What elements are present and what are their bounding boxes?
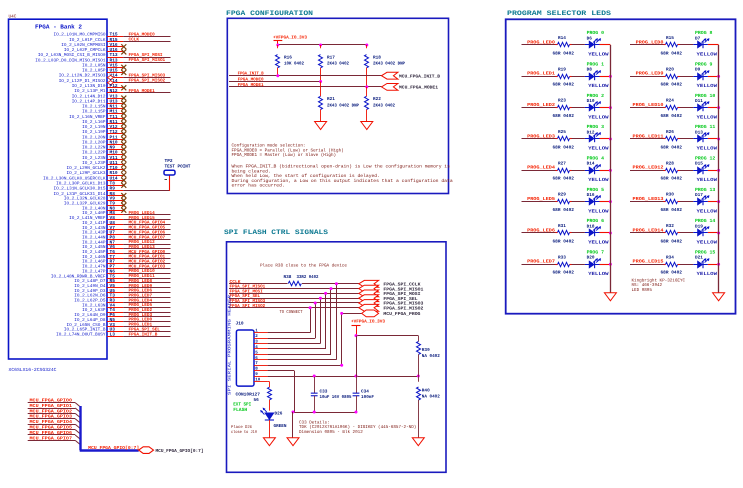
svg-text:PROG 14: PROG 14 bbox=[695, 218, 715, 224]
svg-text:D26: D26 bbox=[275, 412, 283, 417]
svg-text:PROG 10: PROG 10 bbox=[695, 93, 715, 99]
svg-text:PROG 0: PROG 0 bbox=[587, 30, 605, 36]
wire connector pin 3 to signal bbox=[268, 297, 322, 344]
svg-text:MCU_FPGA_GPIO1: MCU_FPGA_GPIO1 bbox=[30, 403, 73, 409]
wire between R24 and D11 bbox=[680, 107, 694, 109]
pin R9 IO_2_L31N_GCLK30_D15 bbox=[54, 186, 124, 192]
svg-text:100nF: 100nF bbox=[361, 395, 374, 400]
svg-text:D17: D17 bbox=[695, 193, 703, 198]
port FPGA_SPI_MOSI bbox=[359, 290, 421, 297]
svg-text:D7: D7 bbox=[695, 36, 701, 41]
svg-text:R29: R29 bbox=[558, 193, 566, 198]
wire net MCU_FPGA_GPIO0 bbox=[28, 398, 81, 408]
LED D21 yellow bbox=[693, 249, 717, 277]
svg-text:68R 0402: 68R 0402 bbox=[553, 239, 575, 244]
svg-text:+VFPGA_IO_3V3: +VFPGA_IO_3V3 bbox=[351, 320, 385, 325]
svg-text:Dimension 0805 - Blk 2012: Dimension 0805 - Blk 2012 bbox=[299, 429, 363, 435]
pin T3 IO_2_L62N_D6 bbox=[74, 293, 123, 299]
svg-text:C34: C34 bbox=[361, 389, 369, 394]
svg-text:PROG_LED2: PROG_LED2 bbox=[527, 102, 555, 108]
svg-text:FLASH: FLASH bbox=[233, 407, 247, 413]
wire net PROG_LED4 bbox=[123, 298, 170, 303]
note Kingbright LED part bbox=[632, 278, 686, 293]
wire D14 cathode to bus bbox=[600, 169, 612, 172]
wire between R19 and D8 bbox=[572, 76, 585, 78]
wire connector pin 9 to 3V3 pull rail bbox=[268, 375, 420, 378]
capacitor C33 10uF 16V 0805 bbox=[311, 377, 352, 412]
connector pin 3 bbox=[254, 340, 268, 345]
test point TP2 pad bbox=[164, 158, 191, 179]
note place R38 close to the FPGA device bbox=[260, 263, 347, 269]
svg-text:10: 10 bbox=[255, 377, 261, 382]
wire to test point TP2 bbox=[123, 175, 169, 191]
wire net PROG_LED5 bbox=[123, 303, 170, 308]
wire connector pin 1 to signal bbox=[268, 306, 312, 332]
resistor R33 68R 0402 bbox=[553, 255, 575, 275]
svg-text:FPGA CONFIGURATION: FPGA CONFIGURATION bbox=[226, 10, 313, 18]
svg-text:MCU_FPGA_INIT_B: MCU_FPGA_INIT_B bbox=[399, 75, 440, 80]
svg-text:N12: N12 bbox=[110, 88, 118, 94]
pin T5 IO_2_L48N_RDWR_B_VREF bbox=[51, 274, 123, 279]
wire D18 cathode to bus bbox=[600, 231, 612, 234]
svg-text:R13: R13 bbox=[110, 57, 118, 63]
svg-text:TEST POINT: TEST POINT bbox=[165, 164, 191, 170]
wire between R27 and D14 bbox=[572, 170, 585, 172]
wire net PROG_LED7 bbox=[123, 293, 170, 298]
note FPGA_INIT_B description bbox=[232, 164, 454, 189]
resistor R14 68R 0402 bbox=[553, 36, 575, 56]
capacitor C34 100nF bbox=[353, 377, 375, 412]
wire D13 cathode to bus bbox=[708, 137, 720, 140]
wire D12 cathode to bus bbox=[600, 137, 612, 140]
svg-text:MCU_FPGA_PROG: MCU_FPGA_PROG bbox=[383, 312, 420, 317]
resistor R40 NA 0402 bbox=[417, 377, 441, 438]
no-connect X on pin V12 bbox=[121, 126, 126, 131]
svg-text:SPI SERIAL PROGRAMMING HEADER: SPI SERIAL PROGRAMMING HEADER bbox=[227, 294, 232, 395]
pin T15 IO_2_L01N_M0_CMPMISO bbox=[54, 33, 124, 38]
pin U16 IO_2_L02P_CMPCLK bbox=[64, 47, 123, 53]
connector pin 6 bbox=[254, 356, 268, 361]
pin V11 IO_2_L23N bbox=[82, 156, 123, 161]
pin V8 IO_2_L41N_VREF bbox=[69, 215, 123, 221]
wire between R20 and D9 bbox=[680, 76, 694, 78]
svg-text:MCU_FPGA_GPIO3: MCU_FPGA_GPIO3 bbox=[30, 414, 73, 420]
svg-text:YELLOW: YELLOW bbox=[697, 146, 718, 152]
port FPGA_SPI_CCLK bbox=[359, 280, 421, 287]
wire net PROG_LED2 bbox=[123, 308, 170, 313]
svg-text:10uF 16V 0805: 10uF 16V 0805 bbox=[320, 395, 352, 400]
wire between R33 and D20 bbox=[572, 264, 585, 266]
pin T10 IO_2_L29N_GCLK2 bbox=[67, 165, 124, 171]
wire net PROG_LED14 bbox=[123, 211, 170, 216]
wire net PROG_LED14 row bbox=[630, 227, 680, 233]
pin V5 IO_2_L49N_D4 bbox=[74, 284, 123, 289]
svg-text:PROG 3: PROG 3 bbox=[587, 124, 605, 130]
wire connector pin 6 to signal bbox=[268, 282, 338, 360]
svg-text:YELLOW: YELLOW bbox=[697, 208, 718, 214]
wire between R26 and D13 bbox=[680, 138, 694, 140]
wire D19 cathode to bus bbox=[708, 231, 720, 234]
svg-text:R23: R23 bbox=[558, 99, 566, 104]
no-connect X on pin U11 bbox=[121, 162, 126, 167]
svg-text:D10: D10 bbox=[587, 99, 595, 104]
svg-text:PROG_LED15: PROG_LED15 bbox=[633, 259, 664, 265]
pin R3 IO_2_L62P_D5 bbox=[74, 298, 123, 304]
port FPGA_SPI_MISO1 bbox=[359, 285, 424, 292]
pin U13 IO_2_L14P_D11 bbox=[72, 98, 124, 104]
pin V7 IO_2_L43N bbox=[82, 226, 123, 231]
no-connect X on pin N10 bbox=[121, 142, 126, 147]
LED D19 yellow bbox=[693, 218, 717, 246]
svg-text:56: 56 bbox=[254, 398, 260, 403]
wire net FPGA_SPI_MISO1 bbox=[229, 285, 362, 290]
pin T7 IO_2_L46N bbox=[82, 255, 123, 260]
svg-text:R24: R24 bbox=[666, 99, 674, 104]
note TO CONNECT bbox=[280, 310, 303, 315]
pin R5 IO_2_L48P_D7 bbox=[74, 279, 123, 284]
svg-text:FPGA_MODE0: FPGA_MODE0 bbox=[238, 77, 264, 82]
svg-text:R25: R25 bbox=[558, 130, 566, 135]
svg-text:33R2 0402: 33R2 0402 bbox=[297, 275, 319, 280]
wire connector pin 7 to signal bbox=[268, 312, 344, 366]
wire net MCU_FPGA_GPIO2 bbox=[123, 260, 170, 265]
wire D17 cathode to bus bbox=[708, 200, 720, 203]
no-connect X on pin V13 bbox=[121, 96, 126, 101]
label CON10R127 bbox=[236, 393, 261, 403]
svg-text:V16: V16 bbox=[110, 42, 118, 48]
wire net FPGA_MODE1 bbox=[229, 83, 382, 89]
svg-text:68R 0402: 68R 0402 bbox=[661, 83, 683, 88]
svg-text:68R 0402: 68R 0402 bbox=[553, 177, 575, 182]
wire net PROG_LED6 bbox=[123, 289, 170, 294]
wire net MCU_FPGA_GPIO2 bbox=[28, 408, 81, 418]
wire net FPGA_SPI_MOSI bbox=[123, 53, 170, 58]
svg-text:C33: C33 bbox=[320, 389, 328, 394]
svg-text:N10: N10 bbox=[110, 139, 118, 145]
wire net MCU_FPGA_GPIO0 bbox=[123, 250, 170, 255]
LED D10 yellow bbox=[585, 93, 609, 121]
svg-text:PROG_LED10: PROG_LED10 bbox=[633, 102, 664, 108]
resistor R17 2K43 0402 bbox=[319, 45, 350, 82]
wire net MCU_FPGA_GPIO4 bbox=[123, 221, 170, 226]
pin M11 IO_2_L15P bbox=[82, 110, 123, 115]
svg-text:2K43 0402 DNP: 2K43 0402 DNP bbox=[373, 62, 405, 67]
no-connect X on pin U13 bbox=[121, 101, 126, 106]
pin M8 IO_2_L40P bbox=[82, 210, 123, 216]
LED D9 yellow bbox=[693, 61, 717, 89]
pin R10 IO_2_L29P_GCLK3 bbox=[67, 170, 124, 176]
section title FPGA CONFIGURATION bbox=[226, 10, 313, 18]
junction dot pin7 column bbox=[340, 364, 343, 367]
wire 3V3 rail to R39 bbox=[355, 334, 419, 337]
pin N7 IO_2_L44P bbox=[82, 240, 123, 245]
wire between R34 and D21 bbox=[680, 264, 694, 266]
wire net PROG_LED2 row bbox=[522, 102, 572, 108]
wire net PROG_LED8 bbox=[123, 279, 170, 284]
svg-text:FPGA_MODE1: FPGA_MODE1 bbox=[238, 83, 264, 88]
wire net MCU_FPGA_GPIO1 bbox=[28, 403, 81, 413]
connector pin 10 bbox=[254, 377, 268, 382]
wire net PROG_LED10 row bbox=[630, 102, 680, 108]
svg-text:R19: R19 bbox=[558, 67, 566, 72]
wire net PROG_LED5 row bbox=[522, 196, 572, 202]
port MCU_FPGA_PROG bbox=[342, 310, 421, 317]
pin U5 IO_2_L49P_D3 bbox=[74, 289, 123, 294]
svg-text:68R 0402: 68R 0402 bbox=[553, 271, 575, 276]
wire net PROG_LED15 bbox=[123, 216, 170, 221]
svg-text:PROG 7: PROG 7 bbox=[587, 249, 605, 255]
svg-text:FPGA_INIT_B: FPGA_INIT_B bbox=[129, 332, 158, 337]
svg-text:R30: R30 bbox=[666, 193, 674, 198]
wire D9 cathode to bus bbox=[708, 75, 720, 78]
resistor R34 68R 0402 bbox=[661, 255, 683, 275]
no-connect X on pin T8 bbox=[121, 183, 126, 188]
wire D8 cathode to bus bbox=[600, 75, 612, 78]
svg-text:YELLOW: YELLOW bbox=[588, 208, 609, 214]
resistor R18 2K43 0402 DNP bbox=[365, 45, 406, 87]
wire net MCU_FPGA_GPIO7 bbox=[123, 235, 170, 240]
junction dots on 3V3 rail bbox=[276, 44, 368, 47]
svg-text:PROG 4: PROG 4 bbox=[587, 155, 605, 161]
resistor R22 2K43 0402 bbox=[365, 87, 396, 122]
svg-text:R16: R16 bbox=[284, 55, 292, 60]
svg-text:GREEN: GREEN bbox=[274, 424, 287, 429]
svg-text:R14: R14 bbox=[558, 36, 566, 41]
svg-text:R34: R34 bbox=[666, 255, 674, 260]
svg-text:68R 0402: 68R 0402 bbox=[661, 51, 683, 56]
pin P6 IO_2_L64N_D9 bbox=[74, 312, 123, 318]
no-connect X on pin N9 bbox=[121, 147, 126, 152]
wire power rail 3V3 bbox=[278, 44, 367, 46]
no-connect X on pin M10 bbox=[121, 152, 126, 157]
resistor R27 68R 0402 bbox=[553, 161, 575, 181]
pin V6 IO_2_L45N bbox=[82, 244, 123, 250]
svg-text:R27: R27 bbox=[558, 161, 566, 166]
no-connect X on pin V16 bbox=[121, 44, 126, 49]
wire net PROG_LED4 row bbox=[522, 165, 572, 171]
pin V15 IO_2_L05N bbox=[82, 63, 123, 68]
svg-text:D9: D9 bbox=[695, 68, 701, 73]
LED D6 yellow bbox=[585, 30, 609, 58]
ground left LED bus bbox=[604, 293, 616, 301]
LED D14 yellow bbox=[585, 155, 609, 183]
resistor R15 68R 0402 bbox=[661, 36, 683, 56]
resistor R39 NA 0402 bbox=[417, 336, 441, 377]
wire net PROG_LED7 row bbox=[522, 259, 572, 265]
power symbol +VFPGA_IO_3V3 (SPI) bbox=[351, 320, 385, 336]
pin T14 IO_2_L12P_D1_MISO2 bbox=[59, 79, 124, 84]
svg-text:YELLOW: YELLOW bbox=[588, 271, 609, 277]
svg-text:2K43 0402: 2K43 0402 bbox=[373, 104, 395, 109]
wire net FPGA_SPI_MISO2 bbox=[229, 304, 362, 309]
resistor R16 10K 0402 bbox=[276, 45, 305, 76]
pin T6 IO_2_L45P bbox=[82, 249, 123, 255]
svg-text:EXT SPI: EXT SPI bbox=[233, 402, 251, 408]
wire net PROG_LED13 bbox=[123, 245, 170, 250]
LED D18 yellow bbox=[585, 218, 609, 246]
LED D20 yellow bbox=[585, 249, 609, 277]
port FPGA_SPI_MISO3 bbox=[359, 300, 424, 307]
note C33 details bbox=[299, 419, 416, 434]
no-connect X on pin T12 bbox=[121, 131, 126, 136]
svg-text:D12: D12 bbox=[587, 130, 595, 135]
svg-text:D20: D20 bbox=[587, 256, 595, 261]
wire net FPGA_SPI_SEL bbox=[229, 294, 362, 299]
svg-text:MCU_FPGA_GPIO4: MCU_FPGA_GPIO4 bbox=[30, 419, 73, 425]
ground below R21 bbox=[315, 122, 327, 130]
pin L3 IO_2_L74N_DOUT_BUSY bbox=[56, 331, 123, 337]
wire net FPGA_SPI_MISO1 bbox=[123, 58, 170, 63]
wire between R25 and D12 bbox=[572, 138, 585, 140]
power symbol +VFPGA_IO_3V3 bbox=[273, 35, 307, 45]
bus MCU_FPGA_GPIO[0:7] horizontal bbox=[80, 445, 140, 451]
wire net PROG_LED0 row bbox=[522, 39, 572, 45]
svg-text:error has occurred.: error has occurred. bbox=[232, 183, 285, 189]
svg-text:YELLOW: YELLOW bbox=[697, 83, 718, 89]
pin T8 IO_2_L30P_GCLK1_D13 bbox=[56, 180, 123, 186]
svg-text:2K43 0402 DNP: 2K43 0402 DNP bbox=[327, 104, 359, 109]
FPGA block title FPGA - Bank 2 bbox=[35, 24, 82, 31]
wire between R30 and D17 bbox=[680, 201, 694, 203]
wire D6 cathode to bus bbox=[600, 44, 611, 46]
ground below D26 bbox=[263, 438, 275, 446]
connector pin 8 bbox=[254, 367, 268, 372]
wire connector pin 4 to signal bbox=[268, 292, 328, 349]
pin P11 IO_2_L20N bbox=[82, 135, 123, 140]
wire connector pin 5 to signal bbox=[268, 287, 333, 354]
resistor R38 33R2 0402 bbox=[284, 275, 319, 286]
wire net PROG_LED1 bbox=[123, 323, 170, 328]
resistor 56R below pin 10 bbox=[268, 381, 272, 410]
svg-text:R22: R22 bbox=[373, 97, 381, 102]
LED D8 yellow bbox=[585, 61, 609, 89]
svg-text:PROG 12: PROG 12 bbox=[695, 155, 715, 161]
svg-text:L3: L3 bbox=[110, 331, 116, 337]
connector pin 5 bbox=[254, 350, 268, 355]
wire net FPGA_SPI_MOSI bbox=[229, 289, 362, 294]
wire D11 cathode to bus bbox=[708, 106, 720, 109]
svg-text:J10: J10 bbox=[236, 321, 244, 327]
svg-text:N9: N9 bbox=[110, 145, 116, 151]
no-connect X on pin N8 bbox=[121, 208, 126, 213]
svg-text:FPGA_MODE1: FPGA_MODE1 bbox=[129, 89, 156, 94]
LED D26 GREEN bbox=[260, 408, 287, 438]
pin T13 IO_2_L03N_MOSI_CSI_B_MISO0 bbox=[38, 52, 123, 58]
svg-text:MCU_FPGA_GPIO6: MCU_FPGA_GPIO6 bbox=[30, 430, 73, 436]
wire net FPGA_INIT_B bbox=[123, 332, 170, 337]
connector J10 body bbox=[236, 321, 255, 386]
svg-text:D13: D13 bbox=[695, 130, 703, 135]
svg-text:68R 0402: 68R 0402 bbox=[661, 177, 683, 182]
pin U15 IO_2_L05P bbox=[82, 69, 123, 74]
svg-text:MCU_FPGA_GPIO2: MCU_FPGA_GPIO2 bbox=[30, 408, 73, 414]
resistor R29 68R 0402 bbox=[553, 193, 575, 213]
connector pin 9 bbox=[254, 372, 268, 377]
svg-text:T10: T10 bbox=[110, 165, 118, 171]
LED D12 yellow bbox=[585, 124, 609, 152]
svg-text:PROG 5: PROG 5 bbox=[587, 187, 605, 193]
ground below capacitor rail bbox=[287, 438, 299, 446]
svg-text:R10: R10 bbox=[110, 170, 118, 176]
svg-text:PROG_LED8: PROG_LED8 bbox=[636, 39, 664, 45]
pin V16 IO_2_L02N_CMPMOSI bbox=[61, 42, 123, 48]
svg-text:PROG_LED0: PROG_LED0 bbox=[527, 39, 555, 45]
svg-text:T8: T8 bbox=[110, 180, 116, 186]
wire net MCU_FPGA_GPIO5 bbox=[123, 226, 170, 231]
wire net MCU_FPGA_GPIO6 bbox=[28, 430, 81, 440]
svg-text:PROG_LED7: PROG_LED7 bbox=[527, 259, 555, 265]
wire net FPGA_SPI_MISO3 bbox=[108, 74, 171, 80]
pin U8 IO_2_L41P bbox=[82, 220, 123, 226]
no-connect X on pin R11 bbox=[121, 121, 126, 126]
wire D21 cathode to bus bbox=[708, 263, 720, 266]
svg-text:PROG 8: PROG 8 bbox=[695, 30, 713, 36]
svg-text:MCU_FPGA_GPIO[0:7]: MCU_FPGA_GPIO[0:7] bbox=[156, 448, 204, 454]
svg-text:T12: T12 bbox=[110, 129, 118, 135]
svg-text:PROG 2: PROG 2 bbox=[587, 93, 605, 99]
svg-text:MCU_FPGA_MODE1: MCU_FPGA_MODE1 bbox=[399, 86, 438, 91]
no-connect X on pin P12 bbox=[121, 85, 126, 90]
wire net MCU_FPGA_GPIO3 bbox=[28, 414, 81, 424]
designator U4C bbox=[9, 15, 17, 20]
wire net PROG_LED3 bbox=[123, 313, 170, 318]
svg-text:M10: M10 bbox=[110, 150, 118, 156]
LED D16 yellow bbox=[585, 187, 609, 215]
svg-text:YELLOW: YELLOW bbox=[588, 177, 609, 183]
resistor R30 68R 0402 bbox=[661, 193, 683, 213]
svg-text:68R 0402: 68R 0402 bbox=[553, 208, 575, 213]
svg-text:68R 0402: 68R 0402 bbox=[553, 51, 575, 56]
pin P7 IO_2_L47N bbox=[82, 265, 123, 270]
svg-text:R31: R31 bbox=[558, 224, 566, 229]
svg-text:PROG_LED5: PROG_LED5 bbox=[527, 196, 555, 202]
no-connect X on pin U15 bbox=[121, 70, 126, 75]
svg-text:YELLOW: YELLOW bbox=[697, 114, 718, 120]
resistor R24 68R 0402 bbox=[661, 99, 683, 119]
svg-text:68R 0402: 68R 0402 bbox=[553, 145, 575, 150]
svg-text:PROG 11: PROG 11 bbox=[695, 124, 715, 130]
svg-text:R38: R38 bbox=[284, 275, 292, 280]
svg-text:YELLOW: YELLOW bbox=[697, 271, 718, 277]
svg-text:YELLOW: YELLOW bbox=[697, 52, 718, 58]
svg-text:PROG 13: PROG 13 bbox=[695, 187, 715, 193]
no-connect X on pin V15 bbox=[121, 65, 126, 70]
svg-text:MCU_FPGA_GPIO[0:7]: MCU_FPGA_GPIO[0:7] bbox=[88, 445, 139, 451]
wire net PROG_LED10 bbox=[123, 269, 170, 274]
wire net PROG_LED9 bbox=[123, 284, 170, 289]
wire D7 cathode to bus bbox=[708, 44, 719, 46]
wire net FPGA_MODE1 bbox=[123, 89, 170, 94]
wire between R32 and D19 bbox=[680, 232, 694, 234]
pin R8 IO_2_L31P_GCLK31_D14 bbox=[54, 191, 124, 197]
svg-text:D18: D18 bbox=[587, 224, 595, 229]
resistor R23 68R 0402 bbox=[553, 99, 575, 119]
svg-text:IO_2_L74N_DOUT_BUSY: IO_2_L74N_DOUT_BUSY bbox=[56, 332, 106, 337]
PROGRAM SELECTOR LEDS section border bbox=[506, 19, 736, 313]
wire net FPGA_SPI_MISO2 bbox=[108, 79, 171, 85]
no-connect X on pin R10 bbox=[121, 173, 126, 178]
svg-text:R28: R28 bbox=[666, 161, 674, 166]
svg-text:U4C: U4C bbox=[9, 15, 17, 20]
connector pin 2 bbox=[254, 334, 268, 339]
svg-text:2K43 0402: 2K43 0402 bbox=[327, 62, 349, 67]
wire between R15 and D7 bbox=[680, 44, 694, 46]
wire between R31 and D18 bbox=[572, 232, 585, 234]
svg-text:R32: R32 bbox=[666, 224, 674, 229]
wire net PROG_LED9 row bbox=[630, 71, 680, 77]
pin T12 IO_2_L19P bbox=[82, 129, 123, 135]
note place D26 close to J10 bbox=[231, 424, 257, 435]
